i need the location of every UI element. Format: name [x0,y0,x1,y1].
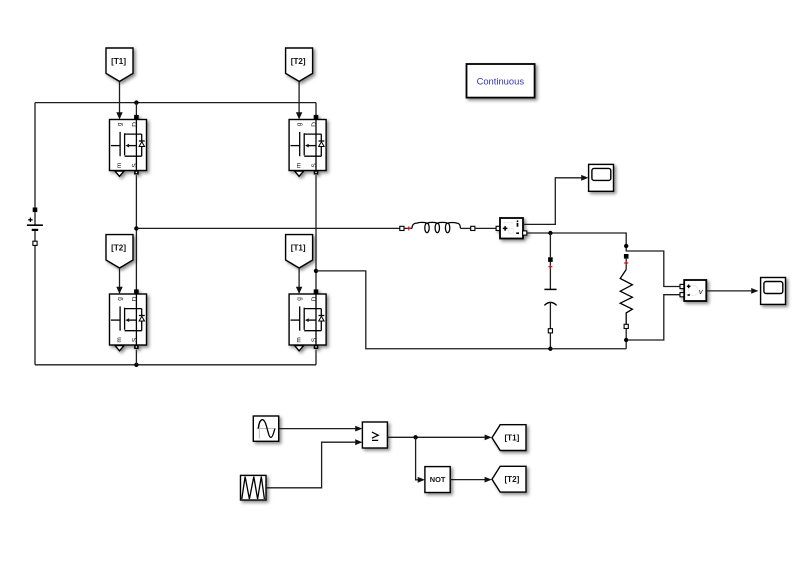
port - square [33,241,37,245]
current measurement block [496,218,527,239]
wire: load top rail [527,233,626,252]
red polarity mark [548,265,552,269]
wire: left leg Q3 source to bottom rail [135,350,137,365]
wire: Q1 drain from top rail [135,103,137,115]
relational operator block >= [362,422,387,448]
node: resistor top junction [624,244,628,248]
coil [412,222,460,228]
node: resistor bottom junction [624,338,628,342]
wire: DC source top vertical [34,103,36,208]
battery long plate [27,224,43,226]
wire: bottom rail [35,364,316,366]
port square left [400,226,404,230]
wire: relational output to goto T1 [387,436,484,438]
wire: right leg Q2 source to Q4 drain [315,175,317,290]
wire: gate lead T2 bottom into Q3 [119,268,121,287]
scope Scope2 [761,278,786,305]
from tag [T2] bottom-left [106,235,133,268]
resistor R branch [620,254,632,349]
port square right [471,226,475,230]
capacitor C branch [544,233,556,349]
from tag [T2] top-right [286,48,313,81]
transistor Q4 (MOSFET bottom-right) [289,289,326,350]
red polarity mark [624,261,628,265]
node: bottom rail / left leg junction [134,363,138,367]
node: right leg midpoint [314,269,318,273]
wire: gate lead T1 bottom into Q4 [298,268,300,287]
wire: load bottom rail corner [550,348,626,350]
cap curved plate [544,302,556,305]
wire: voltage meas minus to resistor bottom [628,295,680,340]
wire: triangle to relational operator [266,442,355,488]
red polarity mark [407,226,411,230]
wire: left leg Q1 source to mid node [135,175,137,290]
sine wave block [253,416,278,441]
wire: branch down to NOT [416,437,418,480]
wire: NOT output to goto T2 [450,479,485,481]
transistor Q1 (MOSFET top-left) [110,115,147,176]
wire: inductor to current measurement [475,227,496,229]
wire: mid rail from left leg to inductor [136,227,399,229]
cap straight plate [544,288,556,290]
wire: return from right leg midpoint to load bottom [316,271,550,349]
svg-text:[T1]: [T1] [504,434,519,443]
triangle wave block [241,475,267,500]
battery short plate [32,229,39,231]
NOT logical operator block [425,467,450,493]
transistor Q3 (MOSFET bottom-left) [110,289,147,350]
svg-text:[T1]: [T1] [111,57,126,66]
port + square [33,208,38,213]
node: top rail / left leg junction [134,100,138,104]
from tag [T1] bottom-right [286,235,313,268]
wire: sine to relational operator [279,428,356,430]
svg-text:Continuous: Continuous [477,76,525,87]
node: cap top junction [548,231,552,235]
wire: gate lead T2 top into Q2 [298,81,300,112]
DC voltage source battery symbol [27,208,43,246]
inductor L (series RLC branch) [400,222,475,232]
node: cap bottom junction [548,347,552,351]
svg-text:[T2]: [T2] [504,475,519,484]
node: pwm branch junction [413,435,417,439]
goto tag [T2] [492,466,526,492]
svg-text:[T2]: [T2] [291,57,306,66]
from tag [T1] top-left [106,48,133,81]
wire: voltage meas output to scope2 [706,290,751,292]
powergui block Continuous [467,64,535,98]
svg-text:[T1]: [T1] [291,243,306,252]
wire: gate lead T1 top into Q1 [119,81,121,112]
goto tag [T1] [492,425,526,451]
zigzag [620,270,632,325]
wire: top rail from DC source to right leg [35,102,316,104]
node: left leg midpoint [134,226,138,230]
svg-text:NOT: NOT [430,475,446,484]
scope Scope1 [589,164,614,191]
voltage measurement block [680,280,706,301]
plus polarity mark [28,218,32,222]
wire: DC source bottom vertical [34,245,36,364]
wire: right leg Q4 source to bottom rail [315,350,317,365]
wire: Q2 drain from top rail corner [315,103,317,115]
wire: current meas i output to scope1 [523,178,581,225]
svg-text:[T2]: [T2] [111,243,126,252]
transistor Q2 (MOSFET top-right) [289,115,326,176]
wire: resistor top to voltage meas plus [626,251,680,287]
